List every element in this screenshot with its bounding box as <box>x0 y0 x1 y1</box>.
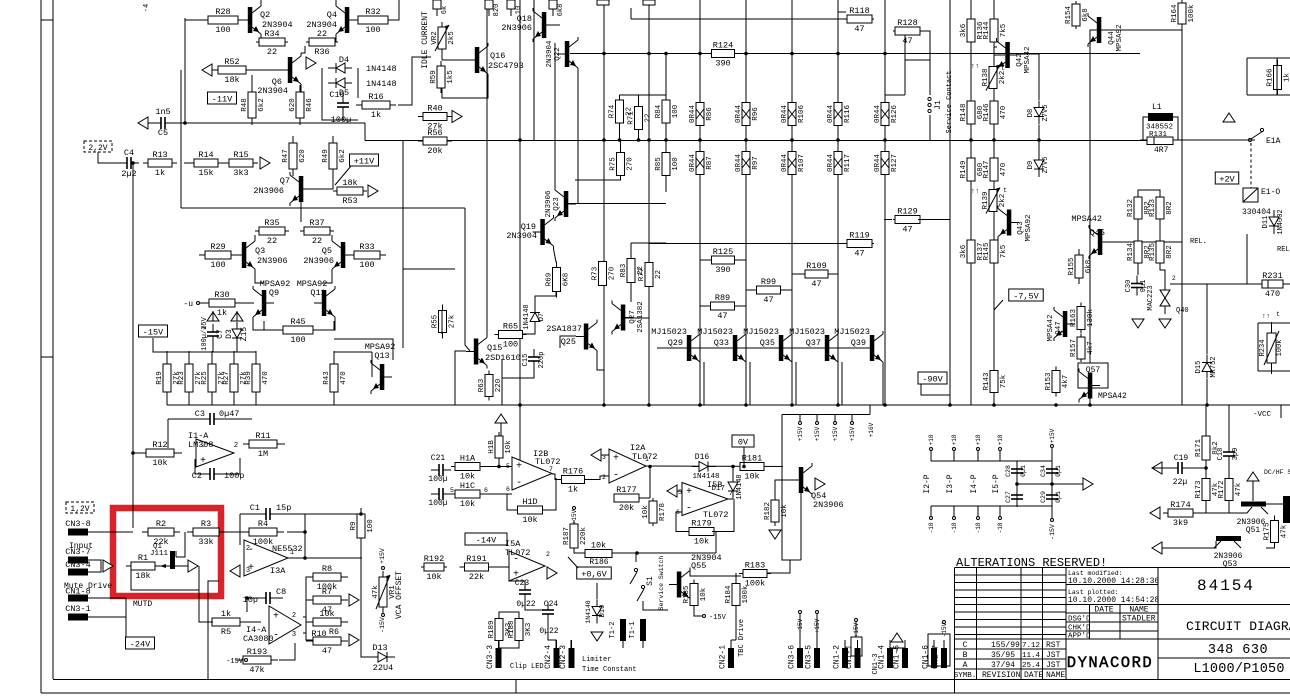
svg-text:NAME: NAME <box>1046 671 1065 680</box>
wire <box>279 643 295 660</box>
wire <box>577 71 579 204</box>
transistor Q55 <box>669 553 722 602</box>
svg-text:C27: C27 <box>1005 491 1012 503</box>
svg-text:R146: R146 <box>983 103 991 122</box>
transistor Q9 <box>253 286 274 320</box>
wire <box>288 532 305 558</box>
ground <box>591 632 603 641</box>
resistor R33 <box>348 242 386 270</box>
node junction <box>1204 466 1208 470</box>
svg-text:Service Switch: Service Switch <box>658 556 665 611</box>
svg-text:155/99: 155/99 <box>991 641 1020 650</box>
svg-text:MPSA42: MPSA42 <box>1098 392 1127 401</box>
svg-text:270: 270 <box>627 157 635 171</box>
resistor R87 <box>689 152 714 175</box>
wire <box>167 351 256 353</box>
svg-text:R9: R9 <box>350 521 358 530</box>
diode D7 <box>523 304 546 329</box>
resistor R231 <box>1262 271 1283 299</box>
resistor R56 <box>418 128 452 156</box>
svg-text:R40: R40 <box>427 104 442 114</box>
svg-text:47: 47 <box>717 311 727 321</box>
svg-text:2k5: 2k5 <box>448 31 456 45</box>
svg-text:+0,6V: +0,6V <box>581 570 607 580</box>
wire <box>441 310 443 334</box>
wire <box>523 328 535 334</box>
svg-text:22: 22 <box>312 236 322 246</box>
svg-text:E1-O: E1-O <box>1261 188 1280 197</box>
svg-text:H1D: H1D <box>522 497 537 507</box>
wire <box>554 43 556 188</box>
node junction <box>497 465 501 469</box>
wire <box>743 447 745 467</box>
svg-text:R172: R172 <box>1218 480 1226 498</box>
capacitor C10 <box>329 90 351 125</box>
node junction <box>1205 403 1209 407</box>
resistor R131 <box>1147 131 1173 155</box>
wire <box>603 0 605 405</box>
wire <box>200 302 207 304</box>
resistor R84 <box>655 100 680 123</box>
capacitor C23 <box>515 579 536 609</box>
wire <box>841 362 843 405</box>
rail I3-P <box>946 434 958 533</box>
wire <box>498 458 500 463</box>
svg-text:47: 47 <box>902 225 912 235</box>
transformer T1-2 <box>609 619 626 648</box>
svg-text:Last modified:: Last modified: <box>1068 570 1123 577</box>
wire <box>884 0 886 405</box>
svg-text:D15: D15 <box>1195 361 1203 374</box>
capacitor C28 <box>1005 461 1027 481</box>
connector J1 <box>928 70 954 133</box>
capacitor C4 <box>119 148 139 179</box>
svg-text:CN3-7: CN3-7 <box>65 547 91 557</box>
svg-text:18k: 18k <box>224 75 239 85</box>
resistor R179 <box>686 519 717 547</box>
svg-text:2SA1382: 2SA1382 <box>637 301 645 333</box>
wire <box>1038 125 1040 140</box>
wire <box>301 46 305 53</box>
svg-text:2k2: 2k2 <box>999 71 1007 85</box>
wire <box>869 405 871 415</box>
svg-text:2SD1610: 2SD1610 <box>485 353 521 363</box>
node junction <box>647 403 651 407</box>
svg-text:6k8: 6k8 <box>1085 260 1093 274</box>
port arrow <box>306 57 316 69</box>
diode D3 <box>225 322 249 346</box>
connector CN2-4 <box>544 640 560 669</box>
connector CN3-8 <box>65 519 96 536</box>
svg-text:130k: 130k <box>1087 309 1095 328</box>
node junction <box>883 52 887 56</box>
wire <box>303 616 306 618</box>
svg-text:+15V: +15V <box>832 426 839 441</box>
svg-text:R33: R33 <box>359 242 374 252</box>
resistor R127 <box>874 152 899 175</box>
svg-text:CN3-8: CN3-8 <box>65 519 91 529</box>
svg-text:REL.: REL. <box>1190 238 1207 246</box>
svg-text:C24: C24 <box>544 600 559 609</box>
connector CN3-3 <box>486 640 502 669</box>
svg-text:-VCC: -VCC <box>1253 411 1272 419</box>
resistor R192 <box>421 554 447 582</box>
resistor R129 <box>893 207 922 235</box>
svg-text:NAME: NAME <box>1129 606 1148 615</box>
svg-text:CN2-4: CN2-4 <box>544 645 553 669</box>
svg-text:E1A: E1A <box>1266 137 1281 146</box>
resistor R146 <box>983 101 1008 124</box>
svg-text:MAC223: MAC223 <box>1147 285 1155 310</box>
svg-text:6: 6 <box>506 486 510 493</box>
svg-text:R179: R179 <box>691 519 711 529</box>
svg-text:+15V: +15V <box>814 426 821 441</box>
connector CN2-3 <box>559 640 575 669</box>
wire <box>96 531 133 533</box>
diode D16 <box>692 453 720 481</box>
svg-text:Q35: Q35 <box>760 338 775 348</box>
resistor top 10 <box>507 0 523 16</box>
port arrow <box>547 567 557 579</box>
svg-text:100: 100 <box>210 260 225 270</box>
svg-text:R2: R2 <box>156 519 166 529</box>
wire <box>1247 507 1252 513</box>
resistor R106 <box>781 103 806 126</box>
wire <box>715 532 717 554</box>
port arrow <box>591 449 601 461</box>
wire <box>885 94 905 96</box>
svg-text:R139: R139 <box>982 191 990 209</box>
resistor R163 <box>1070 303 1095 334</box>
transistor Q16 <box>467 43 524 77</box>
svg-text:D9: D9 <box>1027 161 1035 169</box>
wire <box>746 289 792 291</box>
svg-text:CN1-7: CN1-7 <box>932 645 941 669</box>
capacitor C2 <box>192 468 245 481</box>
svg-text:7k5: 7k5 <box>1000 244 1008 258</box>
wire <box>402 141 404 349</box>
svg-text:2N3904: 2N3904 <box>546 40 554 68</box>
svg-text:C4: C4 <box>124 148 134 158</box>
resistor R126 <box>874 103 899 126</box>
svg-text:-: - <box>516 478 522 489</box>
node junction <box>602 52 606 56</box>
resistor R89 <box>711 293 735 321</box>
svg-text:R188: R188 <box>508 620 516 638</box>
connector CN1-4 <box>878 640 894 669</box>
svg-text:0R44: 0R44 <box>735 105 743 124</box>
wire <box>198 566 200 590</box>
resistor R6 <box>306 609 348 626</box>
node junction <box>637 138 641 142</box>
svg-text:R55: R55 <box>432 314 440 328</box>
svg-text:0µ22: 0µ22 <box>539 627 558 636</box>
svg-text:SYMB.: SYMB. <box>954 672 977 680</box>
resistor R14 <box>184 150 228 178</box>
svg-text:A: A <box>963 661 968 670</box>
capacitor C18 <box>1217 444 1240 464</box>
resistor R157 <box>1070 334 1095 362</box>
capacitor C8 <box>243 587 287 605</box>
svg-text:MJ15023: MJ15023 <box>789 327 825 337</box>
capacitor C15 <box>522 349 546 369</box>
connector CN1-5 <box>893 640 909 669</box>
resistor R2 <box>142 519 180 547</box>
svg-text:0R44: 0R44 <box>827 105 835 124</box>
svg-text:DATE: DATE <box>1024 671 1043 680</box>
svg-text:R174: R174 <box>1170 500 1190 510</box>
resistor R86 <box>689 103 714 126</box>
svg-text:R164: R164 <box>1171 4 1179 23</box>
svg-text:4R7: 4R7 <box>1154 146 1169 155</box>
svg-text:I3-P: I3-P <box>946 474 955 493</box>
svg-text:R45: R45 <box>290 317 305 327</box>
svg-text:100: 100 <box>215 25 230 35</box>
wire <box>1276 58 1278 95</box>
node junction <box>948 403 952 407</box>
resistor R1 <box>126 553 160 581</box>
svg-text:C21: C21 <box>431 454 446 463</box>
svg-text:2,2V: 2,2V <box>88 144 107 153</box>
node junction <box>790 138 794 142</box>
svg-text:R75: R75 <box>610 157 618 171</box>
svg-text:84154: 84154 <box>1197 577 1255 595</box>
wire <box>1110 241 1182 243</box>
resistor R116 <box>827 103 852 126</box>
svg-text:R46: R46 <box>306 98 314 112</box>
node IDLE CURRENT <box>421 11 430 69</box>
svg-text:R14: R14 <box>198 150 213 160</box>
wire <box>238 19 248 21</box>
svg-text:R65: R65 <box>503 322 518 332</box>
svg-text:47k: 47k <box>1235 482 1243 496</box>
wire <box>1162 541 1216 548</box>
svg-text:1: 1 <box>290 549 294 557</box>
wire <box>775 480 791 500</box>
node junction <box>664 52 668 56</box>
svg-text:1k: 1k <box>568 485 578 495</box>
svg-text:3k3: 3k3 <box>233 168 248 178</box>
resistor R189 <box>488 615 513 645</box>
connector CN1-2 <box>833 640 849 669</box>
wire <box>690 570 741 576</box>
svg-text:22k: 22k <box>469 572 484 582</box>
diode D9 <box>1027 153 1050 177</box>
svg-text:2: 2 <box>246 545 250 553</box>
svg-text:0R44: 0R44 <box>689 154 697 173</box>
transistor Q2 <box>240 3 293 37</box>
wire <box>585 476 609 480</box>
svg-text:D3: D3 <box>225 329 234 339</box>
svg-text:-15V: -15V <box>226 658 244 666</box>
wire <box>694 606 702 616</box>
node junction <box>836 52 840 56</box>
wire <box>484 493 512 495</box>
resistor R63 <box>478 371 503 401</box>
wire <box>543 478 556 510</box>
wire <box>278 597 283 599</box>
resistor R71 <box>628 107 653 130</box>
diode D8 <box>1027 101 1050 125</box>
wire <box>931 505 1052 507</box>
resistor R144 <box>983 19 1008 42</box>
svg-text:R145: R145 <box>983 242 991 261</box>
svg-text:R193: R193 <box>247 647 267 657</box>
wire <box>195 459 202 474</box>
transistor Q3 <box>234 238 288 272</box>
wire <box>441 49 443 60</box>
wire <box>568 557 578 568</box>
wire <box>700 305 746 307</box>
node junction <box>1050 482 1054 486</box>
svg-text:820: 820 <box>493 4 501 17</box>
svg-text:CN3-4: CN3-4 <box>65 560 91 570</box>
rail +15V <box>1049 428 1056 461</box>
svg-text:R32: R32 <box>365 7 380 17</box>
wire <box>173 122 365 124</box>
wire <box>235 302 254 304</box>
resistor R36 <box>306 29 338 57</box>
wire <box>306 621 313 623</box>
resistor R171 <box>1195 436 1220 460</box>
svg-text:R126: R126 <box>891 105 899 124</box>
transistor Q22 <box>546 37 578 71</box>
svg-text:STADLER: STADLER <box>1122 615 1156 624</box>
wire <box>1206 284 1208 354</box>
wire <box>782 415 801 561</box>
svg-text:t: t <box>1276 311 1280 318</box>
resistor R15 <box>224 150 258 178</box>
svg-text:R19: R19 <box>156 371 164 385</box>
svg-text:CIRCUIT DIAGRA: CIRCUIT DIAGRA <box>1186 619 1290 634</box>
svg-text:Q25: Q25 <box>561 337 576 347</box>
svg-text:10k: 10k <box>744 472 759 482</box>
node -11V <box>208 92 237 105</box>
svg-text:C2: C2 <box>192 471 202 481</box>
svg-text:2µ2: 2µ2 <box>121 169 136 179</box>
svg-text:0R44: 0R44 <box>781 154 789 173</box>
resistor H1C <box>451 481 484 509</box>
resistor R8 <box>306 564 348 592</box>
svg-text:10k: 10k <box>426 572 441 582</box>
svg-text:100k: 100k <box>742 585 750 604</box>
svg-text:H1B: H1B <box>488 440 496 454</box>
svg-text:0µ1: 0µ1 <box>1020 465 1027 477</box>
svg-text:R135: R135 <box>1149 243 1157 262</box>
wire <box>96 560 101 572</box>
wire <box>552 474 558 480</box>
svg-text:ALTERATIONS RESERVED!: ALTERATIONS RESERVED! <box>956 556 1107 570</box>
svg-text:Service Contact: Service Contact <box>946 70 954 133</box>
wire <box>1228 504 1230 513</box>
port arrow <box>188 560 198 572</box>
svg-text:10.10.2000 14:28:36: 10.10.2000 14:28:36 <box>1068 577 1159 586</box>
node junction <box>883 138 887 142</box>
wire <box>1283 283 1290 285</box>
svg-text:C34: C34 <box>1040 465 1047 477</box>
svg-text:10k: 10k <box>591 541 606 551</box>
svg-text:R125: R125 <box>713 247 733 257</box>
svg-text:18k: 18k <box>135 571 150 581</box>
capacitor C27 <box>1005 487 1023 507</box>
wire <box>360 538 362 558</box>
svg-text:R173: R173 <box>1195 480 1203 499</box>
title block <box>954 556 1290 693</box>
resistor R99 <box>757 277 781 305</box>
svg-text:R107: R107 <box>798 154 806 172</box>
wire <box>212 344 214 352</box>
resistor R83 <box>620 259 645 283</box>
svg-text:+16V: +16V <box>868 422 875 437</box>
node junction <box>744 138 748 142</box>
svg-text:1k5: 1k5 <box>447 70 455 84</box>
wire <box>300 87 302 92</box>
wire <box>292 139 294 143</box>
svg-text:R128: R128 <box>897 18 917 28</box>
node junction <box>1054 403 1058 407</box>
resistor VR1 <box>372 571 397 613</box>
svg-text:47: 47 <box>763 295 773 305</box>
svg-text:-: - <box>273 631 279 642</box>
node junction <box>1088 403 1092 407</box>
svg-text:R39: R39 <box>245 371 253 385</box>
wire <box>1173 117 1255 140</box>
op-amp I2A <box>609 443 658 483</box>
op-amp I5A <box>505 539 545 581</box>
svg-text:22: 22 <box>267 236 277 246</box>
svg-text:Q15: Q15 <box>487 343 502 353</box>
svg-text:CN3-3: CN3-3 <box>486 645 495 669</box>
node junction <box>744 52 748 56</box>
svg-text:100: 100 <box>359 260 374 270</box>
wire <box>994 300 1003 310</box>
resistor R119 <box>845 231 874 259</box>
svg-text:1M: 1M <box>258 449 268 459</box>
svg-text:DSG'D: DSG'D <box>1068 616 1091 624</box>
svg-text:100p: 100p <box>224 471 244 481</box>
svg-text:R52: R52 <box>224 57 239 67</box>
svg-text:R59: R59 <box>430 70 438 84</box>
svg-text:+15V: +15V <box>1049 428 1056 443</box>
wire <box>180 70 182 208</box>
svg-text:Q44: Q44 <box>1108 31 1116 45</box>
svg-text:1k: 1k <box>221 609 231 619</box>
svg-text:390: 390 <box>715 265 730 275</box>
svg-text:+: + <box>273 612 279 623</box>
svg-text:+18: +18 <box>928 434 935 445</box>
transistor Q53 <box>1214 536 1243 569</box>
resistor R53 <box>333 178 367 206</box>
svg-text:-18: -18 <box>928 522 935 533</box>
wire <box>239 514 241 545</box>
svg-text:J1: J1 <box>934 100 943 110</box>
svg-text:7: 7 <box>549 466 553 473</box>
node junction <box>969 138 973 142</box>
resistor R181 <box>740 454 764 482</box>
svg-text:Q29: Q29 <box>668 338 683 348</box>
wire <box>1140 117 1148 140</box>
svg-text:R147: R147 <box>983 160 991 178</box>
node junction <box>131 451 135 455</box>
diode D15 <box>1195 355 1218 379</box>
resistor R187 <box>563 520 588 552</box>
svg-text:100: 100 <box>365 25 380 35</box>
diode D17 <box>711 474 744 499</box>
wire <box>253 320 281 330</box>
svg-text:+18: +18 <box>951 434 958 445</box>
svg-text:DATE: DATE <box>1094 606 1113 615</box>
ground <box>769 530 781 539</box>
